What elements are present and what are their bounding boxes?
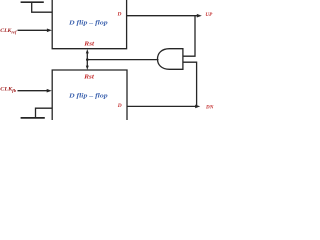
svg-text:DN: DN [205, 105, 214, 111]
svg-text:UP: UP [205, 12, 212, 18]
svg-text:Rst: Rst [83, 42, 94, 48]
svg-text:D flip – flop: D flip – flop [68, 93, 108, 99]
svg-text:CLKref: CLKref [0, 28, 17, 35]
svg-text:D flip – flop: D flip – flop [68, 20, 108, 26]
svg-text:D: D [117, 12, 122, 18]
svg-text:CLKfb: CLKfb [0, 87, 16, 94]
svg-text:D: D [117, 103, 122, 109]
svg-text:Rst: Rst [83, 74, 94, 80]
